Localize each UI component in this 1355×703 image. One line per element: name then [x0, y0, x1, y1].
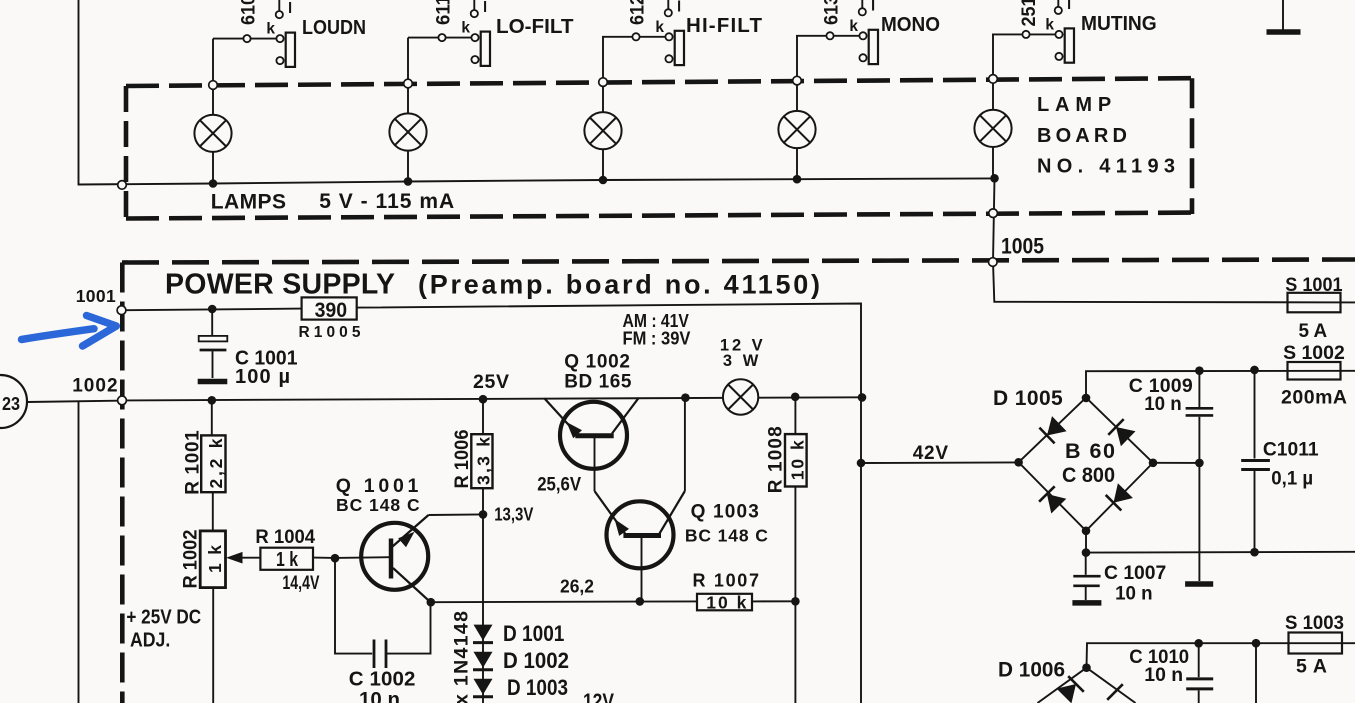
svg-text:R 1002: R 1002	[180, 530, 201, 589]
svg-text:1001: 1001	[76, 286, 116, 306]
svg-text:R 1004: R 1004	[255, 527, 315, 548]
svg-text:HI-FILT: HI-FILT	[686, 14, 762, 37]
svg-text:10 n: 10 n	[1144, 393, 1182, 415]
svg-text:200mA: 200mA	[1281, 387, 1347, 409]
svg-text:D 1001: D 1001	[503, 621, 564, 646]
svg-text:0,1 µ: 0,1 µ	[1271, 468, 1313, 490]
svg-text:D 1006: D 1006	[998, 659, 1065, 682]
svg-text:LOUDN: LOUDN	[302, 16, 366, 39]
svg-text:610: 610	[238, 0, 260, 25]
svg-text:B 60: B 60	[1065, 439, 1115, 463]
svg-text:Q 1003: Q 1003	[691, 502, 759, 523]
svg-text:611: 611	[433, 0, 455, 25]
svg-text:BD 165: BD 165	[564, 371, 632, 392]
svg-text:3,3 k: 3,3 k	[474, 437, 494, 485]
svg-text:C1011: C1011	[1263, 439, 1319, 461]
svg-text:S 1003: S 1003	[1285, 612, 1344, 634]
svg-text:BOARD: BOARD	[1037, 125, 1127, 147]
svg-text:10 n: 10 n	[1144, 664, 1183, 686]
svg-text:BC 148 C: BC 148 C	[336, 495, 420, 515]
svg-text:390: 390	[315, 298, 348, 322]
svg-text:MONO: MONO	[881, 13, 940, 36]
svg-text:12V: 12V	[583, 690, 614, 703]
svg-text:13,3V: 13,3V	[494, 504, 534, 525]
svg-text:R1005: R1005	[299, 324, 361, 341]
svg-text:25V: 25V	[473, 371, 509, 393]
svg-text:R 1006: R 1006	[452, 430, 473, 489]
svg-text:R 1001: R 1001	[183, 430, 204, 495]
svg-text:D 1002: D 1002	[503, 648, 569, 673]
svg-text:26,2: 26,2	[560, 576, 594, 597]
svg-text:+ 25V DC: + 25V DC	[126, 607, 201, 629]
svg-text:S 1001: S 1001	[1285, 274, 1342, 296]
svg-text:1002: 1002	[72, 376, 117, 397]
svg-text:5 A: 5 A	[1296, 656, 1327, 678]
svg-text:C 800: C 800	[1062, 463, 1115, 487]
svg-text:LAMPS: LAMPS	[211, 191, 286, 214]
svg-text:14,4V: 14,4V	[282, 572, 319, 594]
svg-text:100 µ: 100 µ	[235, 366, 290, 388]
svg-text:42V: 42V	[913, 443, 949, 464]
svg-text:10 n: 10 n	[359, 688, 400, 703]
svg-text:1005: 1005	[1001, 234, 1044, 259]
svg-text:5 V - 115 mA: 5 V - 115 mA	[319, 190, 454, 213]
svg-text:1 k: 1 k	[276, 549, 299, 571]
svg-text:251: 251	[1018, 0, 1040, 27]
svg-text:612: 612	[627, 0, 649, 25]
svg-text:MUTING: MUTING	[1081, 12, 1157, 35]
svg-text:1 k: 1 k	[205, 545, 225, 573]
svg-text:FM : 39V: FM : 39V	[623, 329, 691, 349]
svg-text:10 k: 10 k	[706, 593, 746, 613]
svg-text:D 1003: D 1003	[507, 675, 568, 700]
svg-text:613: 613	[821, 0, 843, 25]
svg-text:ADJ.: ADJ.	[130, 630, 170, 652]
svg-text:R 1008: R 1008	[766, 426, 787, 493]
svg-text:x 1N4148: x 1N4148	[451, 611, 473, 703]
svg-text:2,2 k: 2,2 k	[206, 438, 226, 488]
svg-text:(Preamp. board no. 41150): (Preamp. board no. 41150)	[418, 270, 820, 300]
svg-text:C 1007: C 1007	[1104, 562, 1166, 584]
svg-text:10 n: 10 n	[1115, 583, 1153, 605]
svg-text:5 A: 5 A	[1299, 320, 1328, 342]
svg-text:R 1007: R 1007	[693, 571, 760, 591]
svg-text:10 k: 10 k	[788, 440, 808, 480]
svg-text:23: 23	[2, 394, 20, 414]
svg-text:D 1005: D 1005	[993, 387, 1063, 410]
svg-text:BC 148 C: BC 148 C	[685, 526, 768, 546]
svg-text:POWER SUPPLY: POWER SUPPLY	[165, 269, 395, 301]
svg-text:NO. 41193: NO. 41193	[1037, 156, 1175, 178]
svg-text:S 1002: S 1002	[1283, 342, 1345, 364]
svg-text:LO-FILT: LO-FILT	[496, 15, 574, 38]
svg-text:25,6V: 25,6V	[537, 475, 581, 496]
svg-text:Q 1002: Q 1002	[564, 351, 630, 372]
